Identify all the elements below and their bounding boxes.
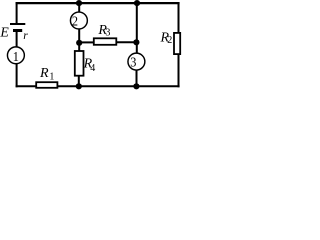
wire top dot to meter 2 — [78, 3, 80, 12]
junction dot middle right — [133, 39, 139, 45]
svg-text:4: 4 — [90, 63, 95, 74]
wire R4 to bottom rail — [78, 76, 80, 87]
svg-text:2: 2 — [167, 35, 172, 46]
junction dot top right branch — [134, 0, 140, 6]
resistor R2 — [174, 33, 180, 54]
battery E r — [10, 24, 25, 31]
wire top right branch down — [136, 3, 138, 53]
meter 1 — [7, 47, 24, 64]
wire middle branch to R4 — [78, 43, 80, 51]
wire middle junction to R3 — [79, 41, 94, 43]
wire right border lower — [178, 55, 180, 88]
wire bottom rail right segment — [137, 85, 180, 87]
wire top rail — [16, 2, 180, 4]
wire R3 to right junction — [116, 41, 137, 43]
svg-text:3: 3 — [105, 28, 110, 39]
wire meter 2 to middle junction — [78, 29, 80, 43]
svg-text:r: r — [23, 30, 28, 42]
junction dot bottom meter 3 — [133, 83, 139, 89]
meter 2 — [70, 12, 87, 29]
junction dot top meter 2 — [76, 0, 82, 6]
svg-text:2: 2 — [72, 13, 78, 29]
svg-text:1: 1 — [49, 71, 54, 82]
wire meter 3 to bottom rail — [136, 70, 138, 87]
svg-text:1: 1 — [13, 48, 19, 64]
junction dot middle left — [76, 40, 82, 46]
label R3 — [97, 23, 110, 39]
svg-text:E: E — [0, 25, 9, 40]
wire bottom rail middle segment — [58, 85, 137, 87]
wire right border upper — [178, 2, 180, 33]
svg-text:R: R — [39, 66, 49, 81]
resistor R1 — [36, 82, 57, 88]
resistor R3 — [94, 38, 117, 45]
wire bottom rail left segment — [16, 85, 37, 87]
junction dot bottom R4 — [76, 83, 82, 89]
wire meter 1 to bottom rail — [16, 64, 18, 88]
label R4 — [83, 57, 96, 74]
svg-text:3: 3 — [130, 54, 137, 70]
wire left branch upper (corner to battery) — [16, 2, 18, 23]
resistor R4 — [75, 51, 84, 76]
label R2 — [160, 30, 173, 45]
label R1 — [39, 66, 54, 82]
wire battery to meter 1 — [16, 32, 18, 47]
meter 3 — [128, 53, 145, 70]
